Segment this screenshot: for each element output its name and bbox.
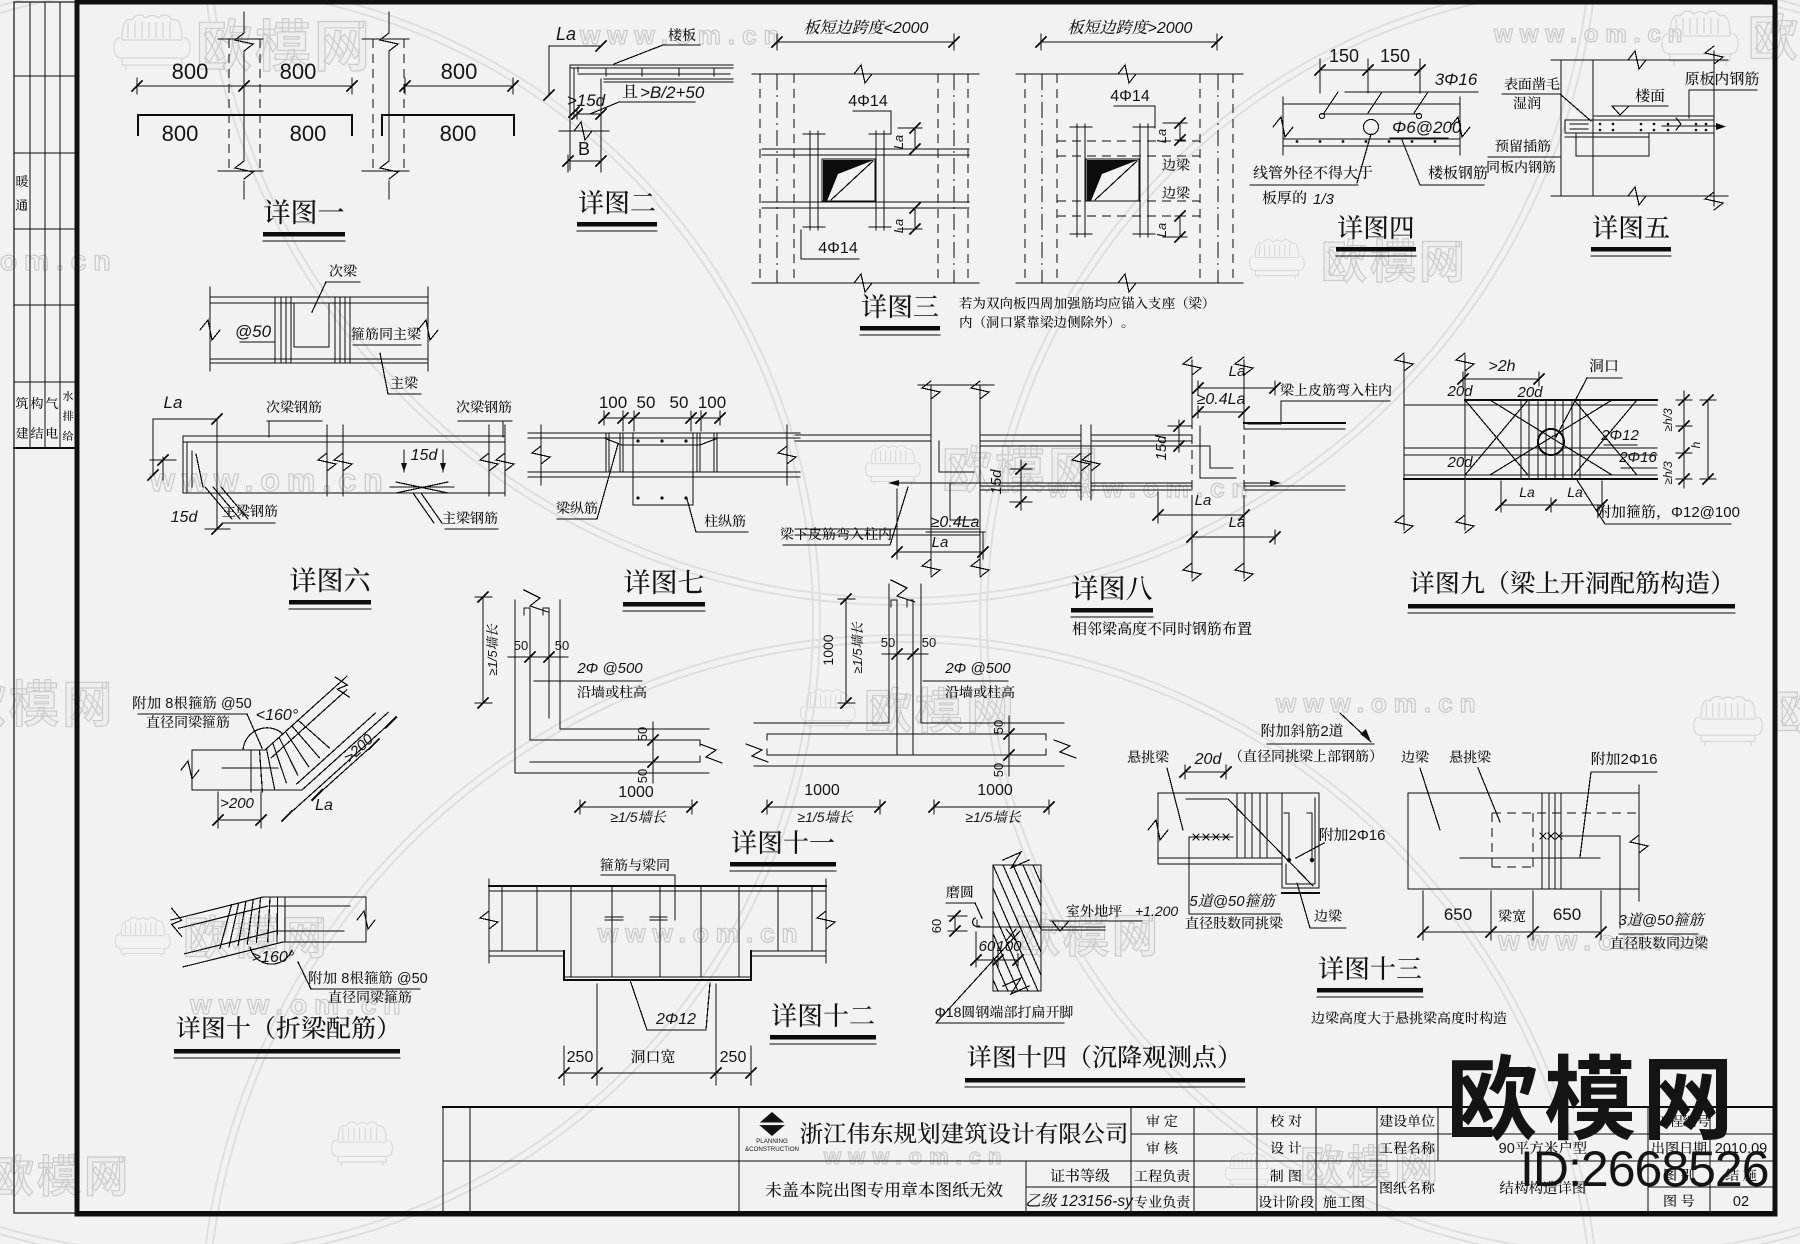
detail8A left beam top rebar bend in column: [939, 441, 974, 472]
detail8B La bottom dim: [1158, 514, 1244, 516]
detail2 rebar ticks: [605, 69, 607, 76]
detail1 right beam line: [382, 115, 514, 135]
detail9 X diagonals: [1490, 400, 1612, 475]
svg-text:详图十一: 详图十一: [731, 828, 835, 858]
detail11T vert dim 1000: [845, 599, 847, 703]
svg-text:2Φ @500: 2Φ @500: [944, 660, 1011, 677]
detail14 磨圆 leader: [975, 903, 982, 918]
svg-text:≥1/5墙长: ≥1/5墙长: [797, 809, 853, 825]
svg-text:≥1/5墙长: ≥1/5墙长: [965, 809, 1021, 825]
svg-text:250: 250: [567, 1049, 594, 1066]
svg-text:板短边跨度<2000: 板短边跨度<2000: [804, 19, 929, 37]
detail8A column right line: [979, 385, 981, 575]
detail5 wall face left: [1560, 60, 1562, 196]
svg-text:沿墙或柱高: 沿墙或柱高: [945, 684, 1015, 700]
detail5 slab left end: [1564, 120, 1566, 133]
svg-text:附加 8根箍筋 @50: 附加 8根箍筋 @50: [132, 695, 251, 712]
svg-text:800: 800: [162, 121, 199, 146]
detail4 slab right break: [1450, 117, 1470, 137]
detail4 leader from circle: [1357, 134, 1371, 183]
svg-text:650: 650: [1553, 905, 1581, 924]
detail1 left column centerline: [243, 12, 245, 32]
detail7 beam top lines: [528, 432, 800, 434]
svg-text:未盖本院出图专用章本图纸无效: 未盖本院出图专用章本图纸无效: [765, 1181, 1003, 1200]
detail13L diagonal bar: [1228, 799, 1313, 886]
detail6 次梁钢筋 leader right: [502, 421, 504, 437]
detail13L beam left end: [1157, 793, 1159, 864]
svg-text:≥1/5墙长: ≥1/5墙长: [850, 621, 865, 673]
detail5 slab break wavy: [1676, 118, 1681, 130]
detail3L slab bottom break: [854, 274, 872, 292]
svg-text:附加斜筋2道: 附加斜筋2道: [1260, 723, 1343, 740]
svg-text:详图十三: 详图十三: [1318, 954, 1422, 984]
svg-text:专业负责: 专业负责: [1134, 1194, 1190, 1210]
detail13L 边梁 leader: [1297, 883, 1310, 928]
detail4 label underline: [1250, 184, 1358, 186]
detail6 section right edge: [427, 287, 429, 371]
detail5 wall bottom line: [1551, 195, 1723, 197]
detail9 洞口 leader: [1556, 378, 1587, 437]
svg-text:附加 8根箍筋 @50: 附加 8根箍筋 @50: [308, 970, 427, 987]
detail6 section left break: [200, 320, 220, 340]
watermark sofa row y250 right: [1249, 240, 1304, 280]
detail6 次梁 leader: [312, 282, 326, 312]
detail8A 15d dim: [1020, 460, 1022, 510]
svg-text:筑: 筑: [15, 396, 29, 411]
detail7 column face right: [692, 433, 694, 505]
detail9 mid rebar lines: [1404, 447, 1657, 449]
detail10A left break: [181, 761, 199, 779]
detail13R x marks: [1540, 833, 1546, 839]
detail12 stirrups: [501, 886, 503, 951]
detail2 B dim: [568, 160, 601, 162]
svg-text:50: 50: [637, 393, 656, 412]
svg-text:50: 50: [991, 720, 1006, 734]
watermark sofa mid center: [800, 690, 855, 730]
detail11T wall rebar verticals: [896, 600, 898, 755]
detail13L top rebar 20d: [1186, 798, 1226, 800]
detail8B La top dim: [1198, 387, 1275, 389]
detail7 rebar dots top: [636, 439, 639, 442]
detail6 elev mid break: [326, 425, 328, 496]
detail3R slab top break: [1118, 65, 1136, 83]
detail9 left support column: [1403, 355, 1405, 530]
svg-text:楼板钢筋: 楼板钢筋: [1428, 165, 1488, 182]
detail14 bar split end: [1006, 929, 1016, 941]
detail11L rebar hooks right: [694, 740, 700, 746]
detail6 section right break: [418, 320, 438, 340]
svg-text:ID:2668526: ID:2668526: [1520, 1141, 1769, 1197]
detail3L opening fill wedge: [823, 160, 874, 201]
detail13L 附加2phi16 leader: [1296, 843, 1324, 858]
svg-text:详图十二: 详图十二: [771, 1001, 875, 1031]
detail11L wall rebar verticals: [529, 608, 531, 740]
svg-text:La: La: [1154, 223, 1169, 237]
svg-text:4Φ14: 4Φ14: [818, 240, 858, 257]
detail12 label bracket: [601, 875, 675, 920]
detail8A column top ticks: [918, 384, 994, 386]
svg-text:乙级 123156-sy: 乙级 123156-sy: [1025, 1193, 1134, 1210]
detail10A incline break: [335, 677, 349, 697]
detail3L slab top edge: [752, 73, 979, 75]
detail6 次梁钢筋 leader left: [268, 421, 270, 437]
svg-text:设计阶段: 设计阶段: [1258, 1194, 1314, 1210]
svg-text:欧: 欧: [1774, 676, 1800, 742]
svg-text:150: 150: [1380, 46, 1410, 66]
detail11L horizontal rebars: [530, 739, 700, 741]
svg-text:校 对: 校 对: [1270, 1113, 1302, 1129]
detail13L edge beam box: [1282, 793, 1319, 888]
svg-text:预留插筋: 预留插筋: [1495, 138, 1551, 154]
detail8A middle beam bottom lines: [980, 485, 1081, 487]
detail8B column right line: [1243, 360, 1245, 420]
svg-text:边梁: 边梁: [1162, 185, 1190, 201]
watermark text mid-row detail3: [865, 446, 920, 486]
detail8A middle beam top lines: [980, 434, 1081, 436]
svg-text:相邻梁高度不同时钢筋布置: 相邻梁高度不同时钢筋布置: [1072, 620, 1252, 638]
svg-text:详图十（折梁配筋）: 详图十（折梁配筋）: [176, 1015, 401, 1043]
detail10A incline inner rebar 2: [297, 713, 376, 784]
detail11T rebar hooks top: [891, 600, 897, 607]
detail5 column break bottom: [1705, 192, 1723, 210]
detail6 stirrups left group: [274, 297, 276, 363]
svg-text:15d: 15d: [988, 469, 1005, 495]
watermark sofa y1150 left: [332, 1122, 393, 1166]
detail5 wall face right: [1592, 60, 1594, 196]
detail13L beam bottom lines: [1158, 857, 1282, 859]
svg-text:箍筋同主梁: 箍筋同主梁: [351, 326, 421, 342]
detail8B middle beam top bar bend: [980, 445, 1210, 447]
svg-text:15d: 15d: [1153, 435, 1170, 461]
svg-text:工程负责: 工程负责: [1134, 1168, 1190, 1184]
svg-text:+1.200: +1.200: [1135, 903, 1178, 919]
detail3R slab bottom edge: [1016, 282, 1243, 284]
svg-text:La: La: [315, 797, 333, 814]
detail2 slab lines: [570, 64, 733, 66]
detail12 deep zone bottom: [564, 976, 751, 978]
detail11T top break: [891, 580, 915, 602]
svg-text:边梁: 边梁: [1401, 749, 1429, 765]
detail11L left vert dim: [482, 597, 484, 703]
detail1 right centerline break bottom: [380, 161, 398, 179]
detail6 bent bars right: [413, 493, 434, 523]
svg-text:建: 建: [15, 426, 28, 441]
svg-text:楼板: 楼板: [668, 27, 696, 43]
detail5 new rebar arrow: [1716, 123, 1726, 130]
bottom frame thick line: [77, 1211, 1775, 1216]
detail1 centerline break bottom: [235, 161, 253, 179]
detail11T wall verticals: [888, 584, 890, 723]
svg-text:50: 50: [670, 393, 689, 412]
svg-text:洞口宽: 洞口宽: [630, 1049, 675, 1066]
svg-text:表面凿毛: 表面凿毛: [1504, 76, 1560, 92]
detail1 beam line: [138, 115, 352, 135]
detail11L 50 dim ticks: [508, 656, 568, 658]
svg-text:≥1/5墙长: ≥1/5墙长: [485, 623, 500, 675]
detail5 wall top line: [1551, 59, 1723, 61]
detail6 section slab top lines: [210, 296, 428, 298]
svg-text:250: 250: [720, 1049, 747, 1066]
svg-text:50: 50: [991, 763, 1006, 777]
svg-text:50: 50: [635, 769, 650, 783]
detail7 stirrups left: [605, 433, 607, 472]
svg-text:>2h: >2h: [1488, 358, 1515, 375]
svg-text:2Φ16: 2Φ16: [1618, 449, 1657, 466]
detail4 top rebar with end hooks: [1321, 113, 1420, 115]
detail2 La dim corner: [549, 46, 601, 95]
detail11L rebar hooks top: [524, 608, 530, 615]
svg-text:直径肢数同边梁: 直径肢数同边梁: [1610, 935, 1708, 951]
svg-text:详图一: 详图一: [264, 198, 345, 228]
svg-text:3道@50箍筋: 3道@50箍筋: [1618, 912, 1706, 929]
detail8B right beam top bar bend: [1200, 426, 1236, 478]
svg-text:www.om.cn: www.om.cn: [823, 1144, 1008, 1169]
logo diamond: [758, 1112, 786, 1136]
detail8A left beam bottom lines: [795, 528, 980, 530]
detail13L 悬挑梁 leader: [1167, 768, 1183, 830]
svg-text:附加2Φ16: 附加2Φ16: [1591, 751, 1658, 768]
detail7 column bottom box: [633, 504, 693, 506]
detail6 sub-beam notch: [294, 303, 329, 347]
svg-text:附加箍筋，Φ12@100: 附加箍筋，Φ12@100: [1596, 504, 1740, 521]
svg-text:B: B: [578, 139, 590, 159]
detail11T rebar hooks right: [1040, 734, 1046, 740]
svg-text:沿墙或柱高: 沿墙或柱高: [577, 684, 647, 700]
detail2 slab rebar with hook: [577, 67, 579, 72]
svg-text:详图六: 详图六: [290, 566, 371, 596]
detail5 right col tick bottom: [1700, 195, 1728, 197]
svg-text:La: La: [1154, 129, 1169, 143]
detail3R edge beam bottom dashed: [1057, 200, 1200, 202]
detail4 slab top line: [1283, 103, 1460, 105]
detail8B label leader: [1248, 401, 1281, 424]
detail2 bent rebar in wall: [573, 68, 575, 118]
detail8A column breaks bottom: [922, 559, 940, 577]
svg-text:柱纵筋: 柱纵筋: [704, 513, 746, 529]
svg-text:100: 100: [698, 393, 726, 412]
detail11L horizontal wall top: [560, 728, 709, 730]
svg-text:悬挑梁: 悬挑梁: [1449, 749, 1491, 765]
svg-text:边梁高度大于悬挑梁高度时构造: 边梁高度大于悬挑梁高度时构造: [1311, 1010, 1507, 1026]
title block outline: [442, 1107, 444, 1213]
svg-text:50: 50: [514, 638, 528, 653]
svg-text:审 定: 审 定: [1146, 1113, 1178, 1129]
detail11L wall verticals: [514, 600, 516, 773]
svg-text:详图八: 详图八: [1072, 574, 1153, 604]
svg-text:800: 800: [280, 59, 317, 84]
detail13R beam top line: [1408, 792, 1639, 794]
detail3R left wall dashed: [1024, 74, 1026, 283]
detail13L beam top line: [1158, 792, 1319, 794]
svg-text:详图四: 详图四: [1337, 213, 1415, 243]
detail1 centerline break top: [235, 33, 253, 51]
detail11T horizontal wall bottom: [754, 765, 1064, 767]
detail10A horizontal beam top: [192, 749, 265, 751]
detail3L right wall dashed: [937, 74, 939, 283]
detail1 left column dashed lines: [228, 39, 230, 171]
detail11T right break: [1054, 740, 1076, 758]
detail5 楼面 triangle: [1612, 106, 1629, 115]
svg-text:2Φ12: 2Φ12: [1600, 427, 1639, 444]
detail2 wall break: [559, 130, 609, 132]
detail14 hatch lines: [943, 865, 1168, 991]
detail5 slab bottom: [1565, 132, 1714, 134]
detail3R right centerline: [1217, 74, 1219, 283]
detail12 right break: [825, 879, 827, 963]
detail11T horizontal rebars: [767, 733, 1046, 735]
svg-text:主梁钢筋: 主梁钢筋: [222, 503, 278, 519]
svg-text:≥1/5墙长: ≥1/5墙长: [610, 809, 666, 825]
detail5 right col tick top: [1700, 59, 1728, 61]
svg-text:线管外径不得大于: 线管外径不得大于: [1253, 165, 1373, 182]
detail3L right centerline: [953, 74, 955, 283]
detail10A incline inner rebar: [271, 690, 347, 758]
detail7 beam left break: [540, 425, 542, 485]
detail8B 15d dim: [1178, 420, 1180, 452]
detail1 right centerline break top: [380, 33, 398, 51]
detail13L arrow diag: [1340, 713, 1371, 742]
detail13R right break: [1638, 785, 1640, 901]
detail6 stirrups right group: [334, 297, 336, 363]
svg-text:60: 60: [929, 919, 944, 933]
detail13R dashed hidden beam: [1492, 812, 1639, 814]
detail10B label leader: [298, 962, 311, 989]
detail7 beam bottom lines: [528, 471, 800, 473]
detail10B incline top edge: [171, 897, 263, 920]
detail1 right column centerline: [388, 12, 390, 32]
detail10A corner stirrup fan: [250, 750, 252, 792]
detail3L vertical rebar pair right: [875, 131, 877, 230]
detail11T rebar hooks left: [767, 734, 773, 740]
title block rows: [1131, 1133, 1377, 1135]
svg-text:≥0.4La: ≥0.4La: [931, 514, 980, 531]
detail5 slab rebar dots: [1599, 123, 1602, 126]
detail1 column bottom tick: [218, 170, 263, 172]
detail13R double bars mid: [1541, 793, 1543, 889]
svg-text:梁上皮筋弯入柱内: 梁上皮筋弯入柱内: [1280, 382, 1392, 398]
detail12 left break: [488, 879, 490, 963]
svg-text:La: La: [164, 393, 183, 412]
svg-text:证书等级: 证书等级: [1050, 1168, 1110, 1185]
detail6 15d left dim vertical: [216, 419, 218, 529]
detail7 柱纵筋 leader: [687, 499, 696, 532]
detail13L stirrups 5: [1236, 793, 1238, 858]
detail6 lap cross marks: [396, 482, 448, 493]
detail10B right break: [357, 911, 375, 929]
svg-text:>B/2+50: >B/2+50: [640, 83, 705, 102]
svg-text:La: La: [1195, 492, 1212, 509]
svg-text:湿润: 湿润: [1513, 95, 1541, 111]
detail14 wall top break: [1003, 852, 1029, 868]
svg-text:La: La: [891, 219, 906, 233]
svg-text:100: 100: [599, 393, 627, 412]
watermark sofa bottom-left: [115, 918, 170, 958]
detail6 section left edge: [209, 287, 211, 371]
detail3R vertical rebar pair left: [1076, 124, 1078, 237]
detail8B right beam top lines: [1244, 422, 1345, 424]
detail9 beam top lines: [1465, 399, 1657, 401]
detail8B column breaks: [1183, 357, 1201, 375]
svg-text:洞口: 洞口: [1589, 358, 1619, 375]
detail12 dim extension lines: [563, 1046, 565, 1085]
svg-text:@50: @50: [235, 322, 272, 341]
detail9 dense stirrups: [1520, 400, 1522, 479]
detail10A La dim line: [287, 722, 391, 816]
svg-text:详图九（梁上开洞配筋构造）: 详图九（梁上开洞配筋构造）: [1410, 570, 1735, 598]
svg-text:800: 800: [441, 59, 478, 84]
detail1 right column dashed lines: [372, 39, 374, 171]
detail6 elev La dim: [153, 419, 217, 475]
svg-text:Φ6@200: Φ6@200: [1392, 118, 1462, 137]
title block columns: [738, 1107, 740, 1213]
detail3R opening rect: [1086, 159, 1139, 201]
svg-text:详图五: 详图五: [1592, 213, 1670, 243]
detail8A left beam top lines: [795, 434, 931, 436]
detail13R beam bottom line: [1408, 888, 1639, 890]
detail6 elev beam bottom: [183, 492, 505, 494]
detail5 column break top: [1705, 46, 1723, 64]
detail8A bottom bar bend in column: [950, 483, 975, 520]
detail8A column breaks top: [922, 381, 940, 399]
detail13R xmark leader line: [1562, 835, 1620, 837]
watermark sofa top-right: [1662, 11, 1738, 66]
detail3L slab top break: [854, 65, 872, 83]
svg-text:150: 150: [1329, 46, 1359, 66]
detail11L top break: [524, 590, 548, 612]
detail13R 边梁 leader: [1420, 768, 1440, 830]
detail10B incline bottom edge: [183, 942, 283, 967]
svg-text:www.om.cn: www.om.cn: [1275, 688, 1483, 718]
detail4 slab soffit: [1283, 145, 1460, 147]
detail3L left centerline: [776, 74, 778, 283]
svg-text:om.cn: om.cn: [0, 245, 117, 276]
svg-text:室外地坪: 室外地坪: [1066, 903, 1122, 919]
detail7 rebar dots bottom: [636, 496, 639, 499]
svg-text:板短边跨度>2000: 板短边跨度>2000: [1068, 19, 1193, 37]
detail10B horizontal beam bottom: [283, 941, 366, 943]
svg-text:5道@50箍筋: 5道@50箍筋: [1189, 893, 1277, 910]
svg-text:20d: 20d: [1446, 383, 1473, 400]
svg-text:Φ18圆钢端部打扁开脚: Φ18圆钢端部打扁开脚: [935, 1004, 1074, 1020]
svg-text:1000: 1000: [977, 782, 1013, 799]
watermark sofa top-left: [114, 15, 190, 70]
detail1 right column ticks: [362, 38, 409, 40]
svg-text:同板内钢筋: 同板内钢筋: [1486, 159, 1556, 175]
detail6 right break: [488, 425, 490, 496]
svg-text:1000: 1000: [820, 634, 836, 665]
detail8B La bottom2 dim: [1192, 536, 1275, 538]
detail1 right dim line 800: [405, 85, 513, 87]
detail9 >2h dim: [1463, 378, 1539, 380]
svg-text:PLANNING: PLANNING: [756, 1138, 788, 1145]
svg-text:欧模网: 欧模网: [0, 665, 115, 737]
svg-text:附加2Φ16: 附加2Φ16: [1319, 827, 1386, 844]
detail3L top rebar pair: [762, 148, 969, 150]
detail5 right column line: [1713, 51, 1715, 206]
detail7 top bar dip: [604, 438, 718, 445]
detail5 lap splice marks: [1570, 123, 1588, 125]
detail12 2phi12 leaders: [630, 980, 647, 1030]
detail10B angle arc: [250, 947, 292, 964]
detail10A incline top edge: [265, 676, 347, 750]
svg-text:La: La: [556, 24, 576, 44]
detail6 主梁 leader: [380, 353, 388, 394]
svg-text:图纸名称: 图纸名称: [1379, 1180, 1435, 1196]
detail4 conduit circle: [1364, 120, 1379, 135]
detail8B column left line: [1191, 360, 1193, 420]
svg-text:15d: 15d: [411, 447, 439, 464]
detail11L horizontal wall bottom: [515, 772, 709, 774]
